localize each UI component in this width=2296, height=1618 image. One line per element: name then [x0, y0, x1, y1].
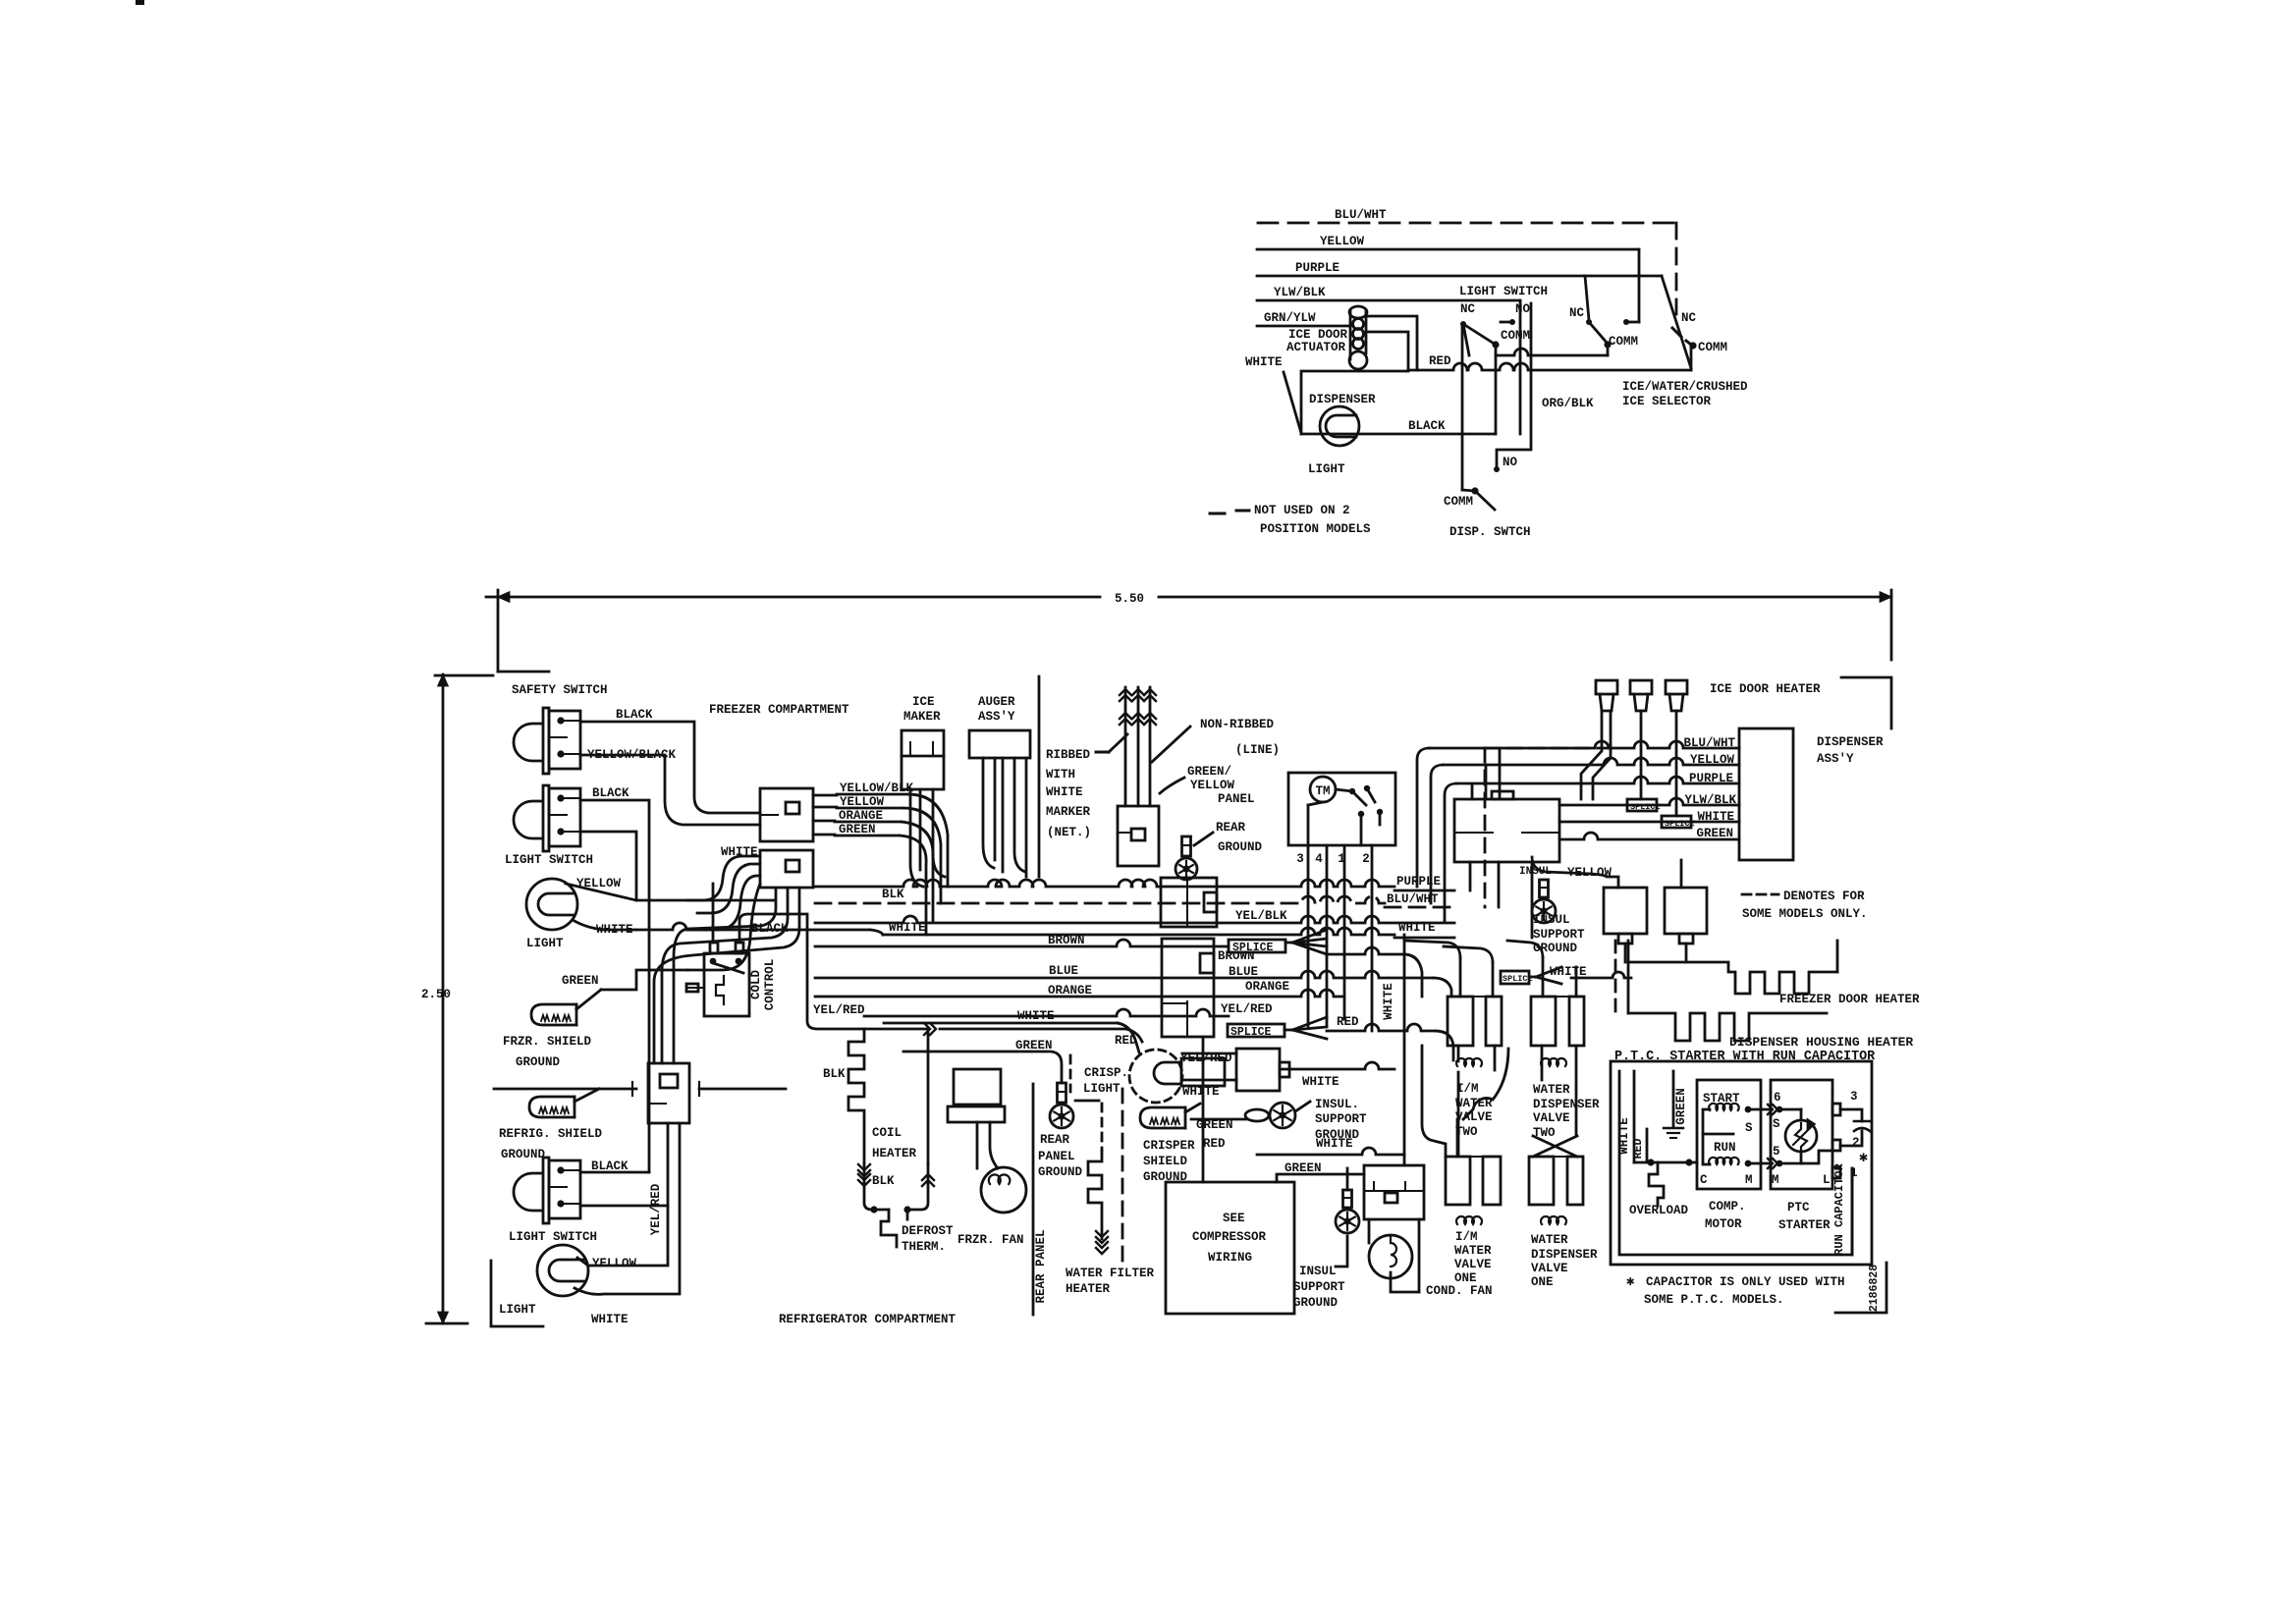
insul support ground (dispenser) — [1540, 880, 1549, 897]
svg-text:SUPPORT: SUPPORT — [1293, 1280, 1345, 1294]
svg-text:3: 3 — [1850, 1090, 1858, 1104]
wire NC drop to disp switch — [1461, 324, 1464, 490]
wires labels slope to trunk — [908, 794, 948, 887]
wire light-switch right side drop — [1519, 300, 1522, 434]
ice door heater plugs — [1596, 680, 1617, 694]
svg-text:SPLICE: SPLICE — [1665, 819, 1695, 829]
wires below connector G — [1469, 862, 1472, 890]
svg-text:NC: NC — [1569, 306, 1585, 320]
svg-text:2: 2 — [1852, 1136, 1860, 1150]
water filter heater (dashed boundary) — [1121, 1089, 1124, 1264]
svg-text:FREEZER DOOR HEATER: FREEZER DOOR HEATER — [1779, 993, 1920, 1006]
svg-text:BLACK: BLACK — [592, 786, 629, 800]
svg-text:CRISPER: CRISPER — [1143, 1139, 1195, 1153]
svg-text:S: S — [1773, 1117, 1780, 1131]
svg-text:BLK: BLK — [872, 1174, 895, 1188]
svg-text:ASS'Y: ASS'Y — [1817, 752, 1854, 766]
svg-text:WHITE: WHITE — [591, 1313, 629, 1326]
svg-text:TM: TM — [1315, 784, 1330, 798]
svg-text:DISPENSER: DISPENSER — [1309, 393, 1376, 406]
svg-text:(LINE): (LINE) — [1235, 743, 1280, 757]
svg-text:S: S — [1745, 1121, 1753, 1135]
frzr fan motor — [981, 1167, 1026, 1213]
svg-text:NO: NO — [1503, 456, 1518, 469]
wire YELLOW feed — [1257, 248, 1639, 251]
svg-text:DISPENSER HOUSING HEATER: DISPENSER HOUSING HEATER — [1729, 1035, 1913, 1050]
wire bundle below connector B2 — [674, 888, 776, 1063]
svg-text:WHITE: WHITE — [1398, 921, 1436, 935]
crisper light (dashed circle) — [1129, 1050, 1182, 1103]
refrig light L2 — [537, 1245, 588, 1296]
svg-text:GREEN: GREEN — [562, 974, 599, 988]
svg-text:NOT USED ON 2: NOT USED ON 2 — [1254, 504, 1350, 517]
svg-text:GROUND: GROUND — [1293, 1296, 1339, 1310]
svg-text:GROUND: GROUND — [1218, 840, 1263, 854]
svg-text:WHITE: WHITE — [1182, 1085, 1220, 1099]
svg-text:2.50: 2.50 — [421, 988, 451, 1001]
wire YEL/RED break arrows — [864, 1028, 928, 1031]
svg-text:M: M — [1772, 1173, 1779, 1187]
svg-text:RED: RED — [1115, 1034, 1137, 1048]
splice S2 with fan — [1228, 1024, 1285, 1037]
svg-text:BLACK: BLACK — [616, 708, 653, 722]
svg-text:FRZR. FAN: FRZR. FAN — [957, 1233, 1024, 1247]
svg-text:CONTROL: CONTROL — [763, 959, 777, 1011]
svg-text:VALVE: VALVE — [1533, 1111, 1570, 1125]
svg-text:YEL/RED: YEL/RED — [1221, 1002, 1273, 1016]
svg-text:GROUND: GROUND — [516, 1055, 561, 1069]
ptc starter box — [1771, 1080, 1832, 1189]
svg-text:ACTUATOR: ACTUATOR — [1286, 341, 1346, 354]
pin2 wire — [1832, 1140, 1840, 1151]
svg-text:FREEZER COMPARTMENT: FREEZER COMPARTMENT — [709, 703, 849, 717]
svg-text:YLW/BLK: YLW/BLK — [1274, 286, 1326, 299]
svg-text:ICE DOOR HEATER: ICE DOOR HEATER — [1710, 682, 1821, 696]
connector B1 (freezer harness upper) — [760, 788, 813, 841]
svg-text:5: 5 — [1773, 1145, 1780, 1159]
svg-text:NC: NC — [1460, 302, 1476, 316]
svg-text:NC: NC — [1681, 311, 1697, 325]
connector M (refrig harness) — [648, 1063, 689, 1123]
frzr fan connector — [954, 1069, 1001, 1105]
corner bracket bottom right — [1835, 1263, 1886, 1313]
svg-text:CAPACITOR IS ONLY USED WITH: CAPACITOR IS ONLY USED WITH — [1646, 1275, 1845, 1289]
svg-text:COIL: COIL — [872, 1126, 902, 1140]
svg-text:SHIELD: SHIELD — [1143, 1155, 1188, 1168]
svg-text:2: 2 — [1362, 852, 1370, 866]
svg-text:FRZR. SHIELD: FRZR. SHIELD — [503, 1035, 592, 1049]
svg-text:REFRIG. SHIELD: REFRIG. SHIELD — [499, 1127, 603, 1141]
connector F — [1364, 1165, 1424, 1219]
svg-text:CRISP.: CRISP. — [1084, 1066, 1128, 1080]
dimension 2.50 left — [442, 674, 445, 1323]
svg-text:ICE: ICE — [912, 695, 935, 709]
svg-text:BLUE: BLUE — [1049, 964, 1078, 978]
dispenser assy box — [1739, 728, 1793, 860]
svg-text:INSUL: INSUL — [1533, 913, 1570, 927]
svg-text:STARTER: STARTER — [1778, 1218, 1831, 1232]
svg-text:BLU/WHT: BLU/WHT — [1335, 208, 1387, 222]
svg-text:RUN: RUN — [1714, 1141, 1736, 1155]
TM pin wires down — [1307, 845, 1310, 1026]
svg-text:BLK: BLK — [823, 1067, 846, 1081]
line cord conductors with arrows — [1124, 687, 1127, 806]
svg-text:✱: ✱ — [1626, 1274, 1635, 1290]
wire YLW/BLK feed — [1257, 299, 1520, 302]
dispenser light box — [1301, 371, 1408, 434]
svg-text:ORANGE: ORANGE — [1245, 980, 1289, 994]
svg-text:PTC: PTC — [1787, 1201, 1810, 1214]
svg-text:PURPLE: PURPLE — [1295, 261, 1339, 275]
svg-text:REAR: REAR — [1040, 1133, 1070, 1147]
see compressor wiring box — [1166, 1182, 1294, 1314]
svg-text:GROUND: GROUND — [1038, 1165, 1083, 1179]
legend: not used on 2 position models — [1210, 511, 1249, 513]
svg-text:4: 4 — [1315, 852, 1323, 866]
svg-text:WHITE: WHITE — [1382, 983, 1395, 1020]
wire bundle S-curves into connectors — [687, 856, 760, 900]
svg-text:RED: RED — [1429, 354, 1451, 368]
svg-text:RIBBED: RIBBED — [1046, 748, 1091, 762]
pin1 tab — [1832, 1167, 1840, 1178]
wire white into box — [1633, 1071, 1636, 1162]
rear panel ground symbol — [1058, 1083, 1066, 1103]
valve two feed wires — [1459, 957, 1462, 997]
svg-text:NON-RIBBED: NON-RIBBED — [1200, 718, 1275, 731]
ptc internal wires — [1779, 1108, 1801, 1111]
svg-text:WHITE: WHITE — [1017, 1009, 1055, 1023]
svg-text:COMM: COMM — [1698, 341, 1727, 354]
freezer compartment corner tick — [498, 671, 549, 674]
overload protector — [1649, 1162, 1664, 1206]
svg-text:LIGHT: LIGHT — [526, 937, 564, 950]
svg-text:DISPENSER: DISPENSER — [1817, 735, 1884, 749]
svg-text:SOME P.T.C. MODELS.: SOME P.T.C. MODELS. — [1644, 1293, 1784, 1307]
dimension 5.50 top — [486, 596, 1100, 599]
connector G (dispenser harness) — [1454, 799, 1559, 862]
defrost thermostat — [874, 1209, 889, 1212]
svg-text:OVERLOAD: OVERLOAD — [1629, 1204, 1689, 1217]
svg-text:VALVE: VALVE — [1531, 1262, 1568, 1275]
svg-text:6: 6 — [1774, 1091, 1781, 1105]
svg-text:DEFROST: DEFROST — [902, 1224, 954, 1238]
wire light sw COMM trunk — [1496, 349, 1608, 355]
splice S1 with fan — [1229, 940, 1285, 952]
frzr shield ground clip — [531, 1004, 576, 1025]
svg-text:MARKER: MARKER — [1046, 805, 1091, 819]
wire green to insul ground — [1191, 1118, 1246, 1121]
svg-text:ICE SELECTOR: ICE SELECTOR — [1622, 395, 1712, 408]
I/M water valve two — [1448, 997, 1473, 1046]
svg-text:NO: NO — [1515, 302, 1531, 316]
svg-text:SPLICE: SPLICE — [1630, 802, 1661, 812]
svg-text:WATER: WATER — [1531, 1233, 1568, 1247]
wire dashed corner down to selector NC — [1675, 223, 1678, 314]
svg-text:YEL/RED: YEL/RED — [813, 1003, 865, 1017]
svg-text:BLK: BLK — [882, 888, 904, 901]
connector D (center harness upper) — [1161, 878, 1217, 927]
wire bundle between valves — [1422, 1046, 1446, 1157]
svg-text:GRN/YLW: GRN/YLW — [1264, 311, 1316, 325]
connector K crisper — [1236, 1049, 1280, 1091]
svg-text:2186828: 2186828 — [1868, 1265, 1881, 1312]
svg-text:SPLICE: SPLICE — [1503, 974, 1533, 984]
insul support ground below — [1343, 1190, 1352, 1208]
svg-text:COMM: COMM — [1609, 335, 1638, 349]
wire white from splice3 fan — [1501, 971, 1529, 984]
svg-text:RED: RED — [1337, 1015, 1359, 1029]
freezer light L1 — [526, 879, 577, 930]
svg-text:WHITE: WHITE — [1316, 1137, 1353, 1151]
svg-text:5.50: 5.50 — [1115, 592, 1144, 606]
svg-text:LIGHT: LIGHT — [499, 1303, 536, 1317]
svg-text:ONE: ONE — [1531, 1275, 1554, 1289]
svg-text:RED: RED — [1203, 1137, 1226, 1151]
refrig shield ground clip — [529, 1097, 574, 1117]
svg-text:YELLOW: YELLOW — [1190, 779, 1235, 792]
svg-text:(NET.): (NET.) — [1047, 826, 1091, 839]
svg-text:WATER: WATER — [1454, 1244, 1492, 1258]
page registration mark — [136, 0, 144, 5]
svg-text:BROWN: BROWN — [1218, 949, 1255, 963]
wire from light switch lower pin — [580, 832, 636, 900]
refrig light switch SW3 — [543, 1158, 549, 1223]
svg-text:YEL/BLK: YEL/BLK — [1235, 909, 1287, 923]
svg-text:MOTOR: MOTOR — [1705, 1217, 1742, 1231]
crisper shield ground clip — [1140, 1107, 1185, 1128]
svg-text:VALVE: VALVE — [1455, 1110, 1493, 1124]
svg-text:COMM: COMM — [1444, 495, 1473, 509]
svg-text:GROUND: GROUND — [501, 1148, 546, 1161]
svg-text:LIGHT: LIGHT — [1083, 1082, 1121, 1096]
wire red riser — [1646, 1129, 1649, 1162]
svg-text:LIGHT SWITCH: LIGHT SWITCH — [509, 1230, 597, 1244]
svg-text:WATER FILTER: WATER FILTER — [1066, 1267, 1155, 1280]
wire yellow drop to connectors J — [1532, 857, 1618, 888]
wire actuator to red bus — [1366, 316, 1417, 370]
svg-text:HEATER: HEATER — [1066, 1282, 1111, 1296]
svg-text:MAKER: MAKER — [903, 710, 941, 724]
rear panel boundary line + label — [1032, 1084, 1035, 1315]
svg-text:AUGER: AUGER — [978, 695, 1015, 709]
wire horizontal tie row — [494, 1088, 636, 1091]
water dispenser valve two — [1531, 997, 1556, 1046]
motor internal wires — [1703, 1109, 1710, 1164]
connectors J1 J2 (door heater) — [1604, 888, 1647, 934]
wire C to junctions — [1634, 1161, 1697, 1164]
svg-text:ONE: ONE — [1454, 1271, 1477, 1285]
wires from ice maker down — [910, 789, 923, 887]
svg-text:I/M: I/M — [1455, 1230, 1478, 1244]
connector C (line cord) — [1118, 806, 1159, 866]
svg-text:WHITE: WHITE — [1046, 785, 1083, 799]
svg-text:SPLICE: SPLICE — [1230, 1026, 1272, 1039]
svg-text:ORG/BLK: ORG/BLK — [1542, 397, 1594, 410]
svg-text:VALVE: VALVE — [1454, 1258, 1492, 1271]
svg-text:COMPRESSOR: COMPRESSOR — [1192, 1230, 1267, 1244]
svg-text:SUPPORT: SUPPORT — [1315, 1112, 1367, 1126]
cond fan motor — [1369, 1235, 1412, 1278]
svg-text:INSUL.: INSUL. — [1315, 1098, 1359, 1111]
thermostat TM box — [1288, 773, 1395, 845]
compartment corner bottom-left — [491, 1261, 543, 1326]
wire run to ptc — [1748, 1162, 1771, 1165]
svg-text:L: L — [1823, 1173, 1831, 1187]
dashed riser for some models — [1484, 748, 1487, 907]
svg-text:COMM: COMM — [1501, 329, 1530, 343]
wire PURPLE feed — [1257, 275, 1662, 278]
svg-text:HEATER: HEATER — [872, 1147, 917, 1160]
svg-text:COLD: COLD — [749, 970, 763, 1000]
svg-text:BLACK: BLACK — [1408, 419, 1446, 433]
svg-text:WHITE: WHITE — [1617, 1117, 1631, 1155]
connector B2 (freezer harness lower) — [760, 850, 813, 888]
svg-text:PURPLE: PURPLE — [1396, 875, 1441, 889]
svg-text:REAR PANEL: REAR PANEL — [1034, 1229, 1048, 1303]
svg-text:DISPENSER: DISPENSER — [1533, 1098, 1600, 1111]
wires from auger assy down — [983, 758, 994, 868]
svg-text:POSITION MODELS: POSITION MODELS — [1260, 522, 1371, 536]
wire yellow drop to NO — [1638, 249, 1641, 322]
svg-text:YELLOW: YELLOW — [1320, 235, 1365, 248]
svg-text:DISP. SWTCH: DISP. SWTCH — [1449, 525, 1531, 539]
corner bracket right — [1841, 677, 1891, 728]
svg-text:ICE DOOR: ICE DOOR — [1288, 328, 1348, 342]
svg-text:WHITE: WHITE — [1245, 355, 1283, 369]
wire long vertical (net line) — [1038, 676, 1041, 877]
legend denotes for some models — [1742, 893, 1778, 896]
cold control box — [704, 953, 749, 1016]
svg-text:RUN CAPACITOR: RUN CAPACITOR — [1832, 1162, 1846, 1255]
svg-text:BLACK: BLACK — [751, 922, 789, 936]
I/M water valve one — [1446, 1157, 1470, 1205]
svg-text:GREEN/: GREEN/ — [1187, 765, 1231, 779]
svg-text:C: C — [1700, 1173, 1708, 1187]
coil heater lower leads with arrows — [858, 1170, 870, 1176]
svg-text:GREEN: GREEN — [1674, 1088, 1688, 1125]
run capacitor wire down — [1851, 1168, 1854, 1255]
svg-text:COND. FAN: COND. FAN — [1426, 1284, 1493, 1298]
svg-text:ASS'Y: ASS'Y — [978, 710, 1015, 724]
wires down from J connectors to heater — [1624, 944, 1627, 962]
wire riser valve feeds — [1404, 941, 1460, 957]
svg-text:WITH: WITH — [1046, 768, 1075, 782]
valve one feed wires — [1457, 1046, 1460, 1157]
svg-text:WIRING: WIRING — [1208, 1251, 1252, 1265]
svg-text:PANEL: PANEL — [1218, 792, 1255, 806]
water dispenser valve one + cross wires — [1529, 1157, 1554, 1205]
freezer light switch SW2 — [543, 785, 549, 851]
svg-text:LIGHT SWITCH: LIGHT SWITCH — [1459, 285, 1548, 298]
wire BLU/WHT (dashed, top feed) — [1258, 222, 1676, 225]
svg-text:YEL/RED: YEL/RED — [649, 1183, 663, 1235]
cold control pin wires up — [712, 884, 715, 943]
svg-text:THERM.: THERM. — [902, 1240, 946, 1254]
svg-text:SOME MODELS ONLY.: SOME MODELS ONLY. — [1742, 907, 1868, 921]
svg-text:SAFETY SWITCH: SAFETY SWITCH — [512, 683, 608, 697]
wire start to ptc — [1748, 1108, 1771, 1111]
freezer door heater meander — [1614, 941, 1617, 1013]
ptc thermistor circle — [1785, 1120, 1817, 1152]
wires crisper to right — [1182, 1052, 1236, 1055]
svg-text:LIGHT SWITCH: LIGHT SWITCH — [505, 853, 593, 867]
insul support ground (ring) — [1245, 1109, 1269, 1121]
svg-text:SEE: SEE — [1223, 1212, 1245, 1225]
wire GRN/YLW feed — [1257, 325, 1350, 328]
svg-text:INSUL: INSUL — [1299, 1265, 1337, 1278]
svg-text:WATER: WATER — [1533, 1083, 1570, 1097]
svg-text:COMP.: COMP. — [1709, 1200, 1746, 1213]
svg-text:3: 3 — [1296, 852, 1304, 866]
plug lead wires — [1581, 711, 1602, 799]
wires from connector B1 to labels — [813, 794, 837, 797]
ptc outer box — [1611, 1061, 1872, 1265]
svg-text:DISPENSER: DISPENSER — [1531, 1248, 1598, 1262]
connector E (center harness lower) — [1162, 939, 1214, 1037]
comp motor box — [1697, 1080, 1761, 1189]
svg-text:DENOTES FOR: DENOTES FOR — [1783, 890, 1865, 903]
svg-text:ICE/WATER/CRUSHED: ICE/WATER/CRUSHED — [1622, 380, 1748, 394]
svg-text:SUPPORT: SUPPORT — [1533, 928, 1585, 942]
wire purple slant to selector — [1662, 276, 1691, 368]
svg-text:REAR: REAR — [1216, 821, 1246, 835]
svg-text:WHITE: WHITE — [1302, 1075, 1339, 1089]
svg-text:YELLOW: YELLOW — [592, 1257, 637, 1270]
svg-text:M: M — [1745, 1173, 1753, 1187]
svg-text:LIGHT: LIGHT — [1308, 462, 1345, 476]
svg-text:✱: ✱ — [1859, 1150, 1868, 1166]
risers above connector G — [1471, 783, 1474, 799]
svg-text:PANEL: PANEL — [1038, 1150, 1075, 1163]
svg-text:REFRIGERATOR COMPARTMENT: REFRIGERATOR COMPARTMENT — [779, 1313, 957, 1326]
pin3 wire + run capacitor — [1832, 1104, 1840, 1115]
